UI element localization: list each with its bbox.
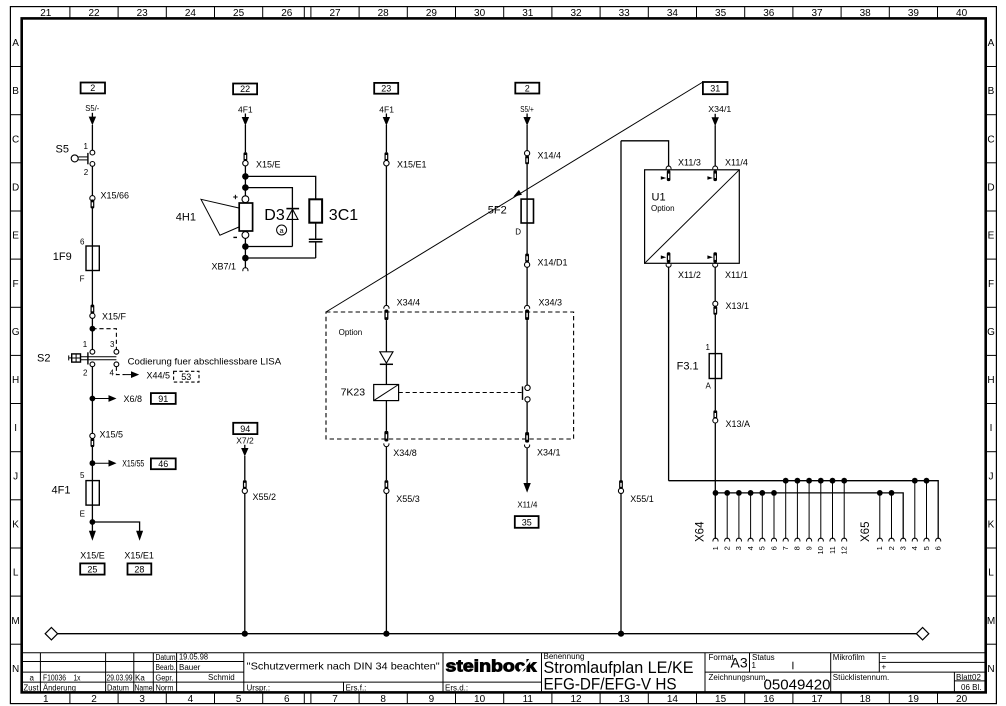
svg-text:A3: A3 — [731, 655, 748, 671]
svg-text:EFG-DF/EFG-V HS: EFG-DF/EFG-V HS — [544, 675, 677, 694]
svg-text:X14/4: X14/4 — [538, 151, 562, 161]
source arrow X34/1 — [714, 114, 716, 119]
sheet reference box 28 — [128, 563, 152, 574]
connector X64 pin 1 — [713, 490, 719, 496]
horn 4H1 — [233, 196, 237, 198]
svg-text:E: E — [988, 231, 995, 242]
svg-text:A: A — [706, 382, 712, 391]
svg-text:Änderung: Änderung — [43, 684, 76, 693]
bottom rail left diamond terminal — [45, 628, 57, 640]
svg-text:K: K — [12, 520, 19, 531]
svg-text:D: D — [515, 228, 521, 237]
wire X13/A down to lower bus and X64 pin 1 — [714, 423, 716, 539]
node to 3C1 branch junction dot — [242, 173, 249, 180]
svg-text:15: 15 — [715, 694, 727, 705]
frame left strip letters A-N — [11, 38, 19, 675]
connector X15/5 — [90, 433, 95, 438]
svg-text:37: 37 — [811, 8, 823, 19]
svg-text:X44/5: X44/5 — [147, 371, 171, 381]
svg-text:Bauer: Bauer — [179, 663, 201, 672]
svg-text:G: G — [12, 327, 20, 338]
branch arrow X15/E1 — [136, 531, 143, 541]
svg-text:a: a — [30, 674, 35, 683]
sheet reference box 25 — [80, 563, 104, 574]
wire arrow to S5 contact 1 — [91, 125, 93, 150]
wire X34/1 down with arrow to X11/4 — [526, 448, 528, 485]
wire arrow to U1 pin X11/4 — [714, 125, 716, 166]
svg-text:Norm: Norm — [156, 684, 174, 693]
svg-text:X11/3: X11/3 — [678, 157, 701, 167]
connector X34/8 — [384, 431, 388, 442]
connector X64 pin 7 — [783, 478, 789, 484]
svg-text:6: 6 — [934, 546, 943, 550]
svg-text:1: 1 — [84, 142, 89, 151]
svg-text:Option: Option — [651, 204, 675, 213]
svg-text:4F1: 4F1 — [379, 104, 394, 114]
svg-text:11: 11 — [828, 546, 837, 554]
svg-text:12: 12 — [840, 546, 849, 554]
frame top strip numbers 21-40 — [40, 8, 967, 19]
wire X14/4 to fuse 5F2 — [526, 164, 528, 199]
svg-text:X34/3: X34/3 — [539, 298, 563, 308]
svg-text:F: F — [13, 279, 19, 290]
svg-text:Ka: Ka — [135, 674, 145, 683]
svg-text:I: I — [990, 423, 993, 434]
svg-text:J: J — [989, 471, 994, 482]
svg-text:10: 10 — [474, 694, 486, 705]
option dashed enclosure — [326, 312, 574, 439]
svg-text:X34/1: X34/1 — [537, 447, 561, 457]
source arrow X7/2 — [244, 445, 246, 450]
svg-text:X11/1: X11/1 — [725, 270, 748, 280]
svg-text:X11/4: X11/4 — [517, 500, 537, 510]
svg-text:Ers.d.:: Ers.d.: — [445, 684, 468, 693]
svg-text:2: 2 — [91, 694, 97, 705]
connector X64 pin 10 — [818, 478, 824, 484]
svg-text:X15/F: X15/F — [102, 311, 127, 321]
diode in option box — [380, 352, 393, 363]
svg-text:F3.1: F3.1 — [677, 360, 699, 372]
wire node to 3C1 top — [245, 176, 315, 199]
frame right strip row dividers — [986, 67, 997, 645]
svg-text:25: 25 — [87, 565, 97, 575]
junction dot rail/X55-1 column — [618, 631, 624, 637]
svg-text:06 Bl.: 06 Bl. — [961, 683, 981, 692]
connector X65 pin 3 — [901, 538, 906, 541]
wire node to D3 top — [245, 188, 292, 209]
svg-text:22: 22 — [240, 84, 250, 94]
svg-text:14: 14 — [667, 694, 679, 705]
source arrow 4F1 (col 28) — [385, 114, 387, 119]
svg-text:X34/1: X34/1 — [708, 104, 731, 114]
svg-text:22: 22 — [88, 8, 100, 19]
svg-text:Mikrofilm: Mikrofilm — [833, 653, 865, 662]
svg-text:4F1: 4F1 — [52, 485, 71, 497]
dashed link S2 contact 4 to X44/5 — [116, 367, 124, 375]
svg-text:6: 6 — [284, 694, 290, 705]
wire arrow to X15/E — [244, 125, 246, 152]
title block grid lines — [22, 653, 986, 693]
wire F3.1 to X13/A — [714, 379, 716, 411]
svg-text:X13/A: X13/A — [726, 419, 751, 429]
svg-text:X55/2: X55/2 — [253, 492, 277, 502]
svg-text:9: 9 — [804, 546, 813, 550]
svg-text:1F9: 1F9 — [53, 251, 72, 263]
svg-text:3C1: 3C1 — [329, 207, 358, 224]
svg-text:24: 24 — [185, 8, 197, 19]
wire X55/2 to rail — [244, 494, 246, 634]
svg-text:Option: Option — [339, 328, 363, 337]
node X15/F junction dot — [90, 326, 96, 332]
svg-text:Urspr.:: Urspr.: — [247, 684, 271, 693]
frame bottom strip column dividers — [70, 692, 938, 703]
svg-text:3: 3 — [110, 340, 115, 349]
svg-text:28: 28 — [378, 8, 390, 19]
source arrow S5/- — [91, 113, 93, 118]
wire arrow to X14/4 — [526, 125, 528, 151]
node X15/55 junction dot — [90, 460, 96, 466]
svg-text:8: 8 — [793, 546, 802, 550]
svg-text:05049420: 05049420 — [764, 677, 831, 694]
wire X55/3 to rail — [385, 494, 387, 634]
svg-text:Codierung fuer abschliessbare: Codierung fuer abschliessbare LISA — [128, 357, 282, 368]
svg-text:X11/2: X11/2 — [678, 270, 701, 280]
svg-text:X15/E1: X15/E1 — [397, 160, 427, 170]
connector X65 pin 2 — [889, 490, 895, 496]
svg-text:3: 3 — [734, 546, 743, 550]
wire X15/E to horn 4H1 — [244, 166, 246, 200]
svg-text:J: J — [13, 471, 18, 482]
svg-text:B: B — [12, 86, 19, 97]
capacitor 3C1 branch — [309, 199, 322, 222]
svg-text:4: 4 — [110, 368, 115, 377]
svg-text:7K23: 7K23 — [341, 387, 366, 399]
svg-text:S5/+: S5/+ — [520, 104, 534, 114]
branch arrow to X15/55 — [92, 462, 109, 464]
svg-text:19.05.98: 19.05.98 — [179, 652, 209, 661]
connector X14/4 — [525, 151, 530, 156]
svg-text:X15/E: X15/E — [80, 550, 105, 560]
svg-text:I: I — [14, 423, 17, 434]
svg-text:"Schutzvermerk nach DIN 34 bea: "Schutzvermerk nach DIN 34 beachten" — [247, 662, 440, 673]
svg-text:3: 3 — [139, 694, 145, 705]
sheet reference box 35 — [515, 516, 539, 528]
wire X15/E1 down to X34/4 — [385, 166, 387, 305]
connector X65 pin 1 — [877, 490, 883, 496]
branch arrow X15/E — [91, 522, 93, 532]
svg-text:21: 21 — [40, 8, 52, 19]
svg-text:29.03.99: 29.03.99 — [107, 674, 133, 683]
svg-text:D3: D3 — [264, 207, 285, 224]
connector X34/4 — [384, 305, 389, 308]
svg-text:1: 1 — [752, 661, 757, 670]
diode D3 branch — [291, 208, 293, 247]
U1 pin X11/1 — [713, 252, 717, 263]
wire S5 to X15/66 — [91, 166, 93, 195]
lower distribution bus wire — [715, 493, 903, 539]
svg-text:23: 23 — [381, 84, 391, 94]
svg-text:2: 2 — [723, 546, 732, 550]
svg-text:X13/1: X13/1 — [726, 301, 750, 311]
wire X55/1 column down to rail — [620, 141, 622, 634]
svg-text:27: 27 — [329, 8, 341, 19]
connector X64 pin 11 — [830, 478, 836, 484]
connector X34/3 — [525, 305, 530, 308]
svg-text:94: 94 — [240, 424, 250, 434]
node D3 return junction dot — [242, 243, 249, 250]
sheet reference box 31 — [703, 82, 728, 94]
svg-text:13: 13 — [619, 694, 631, 705]
connector X64 pin 3 — [736, 490, 742, 496]
svg-text:N: N — [12, 664, 19, 675]
svg-text:20: 20 — [956, 694, 968, 705]
relay coil 7K23 — [374, 385, 399, 401]
svg-text:26: 26 — [281, 8, 293, 19]
svg-text:28: 28 — [134, 565, 144, 575]
node 3C1 return junction dot — [242, 255, 249, 262]
connector X65 pin 4 — [912, 478, 918, 484]
frame top strip fold mark — [303, 7, 305, 19]
wire X34/3 to relay contact — [526, 320, 528, 385]
frame bottom strip numbers 1-20 — [43, 694, 968, 705]
node below 4F1 junction dot — [90, 519, 96, 525]
wire diode to relay 7K23 — [385, 364, 387, 384]
svg-text:X15/5: X15/5 — [100, 430, 124, 440]
frame right strip letters A-N — [987, 38, 995, 675]
connector X64 pin 8 — [795, 478, 801, 484]
svg-text:6: 6 — [769, 546, 778, 550]
connector X15/E (horn feed) — [244, 152, 248, 161]
svg-text:30: 30 — [474, 8, 486, 19]
wire relay to X34/8 — [385, 401, 387, 431]
wire 4F1 to branch node — [91, 505, 93, 522]
svg-text:25: 25 — [233, 8, 245, 19]
svg-text:F: F — [988, 279, 994, 290]
node X6/8 junction dot — [90, 396, 96, 402]
svg-text:X15/55: X15/55 — [122, 459, 144, 469]
svg-text:X15/E: X15/E — [256, 159, 281, 169]
wire 5F2 to X14/D1 — [526, 223, 528, 254]
svg-text:23: 23 — [137, 8, 149, 19]
bottom supply rail wire — [58, 633, 917, 635]
wire arrow to X15/E1 — [385, 125, 387, 152]
svg-text:X6/8: X6/8 — [124, 394, 143, 404]
svg-text:S2: S2 — [37, 353, 50, 365]
svg-text:7: 7 — [332, 694, 338, 705]
svg-text:E: E — [80, 510, 85, 519]
svg-text:35: 35 — [522, 518, 532, 528]
svg-text:3: 3 — [899, 546, 908, 550]
connector X64 pin 2 — [724, 490, 730, 496]
svg-text:2: 2 — [84, 168, 89, 177]
svg-text:Bearb.: Bearb. — [156, 663, 176, 672]
wire X15/66 to fuse 1F9 to X15/F — [91, 209, 93, 305]
svg-text:17: 17 — [811, 694, 823, 705]
svg-text:11: 11 — [523, 694, 534, 705]
wire X34/8 to X55/3 — [385, 446, 387, 480]
svg-text:=: = — [882, 653, 887, 662]
svg-text:46: 46 — [158, 459, 168, 469]
U1 pin X11/3 — [666, 166, 671, 169]
svg-text:Gepr.: Gepr. — [156, 673, 174, 682]
wire corner feed to U1 pin X11/3 — [621, 141, 669, 167]
svg-text:M: M — [987, 616, 995, 627]
svg-text:18: 18 — [860, 694, 872, 705]
relay contact 7K23 in option box — [525, 385, 530, 390]
wire D3 bottom to node — [245, 246, 292, 248]
connector X14/D1 — [525, 254, 529, 263]
svg-text:38: 38 — [860, 8, 872, 19]
svg-text:1: 1 — [706, 343, 711, 352]
svg-text:10: 10 — [816, 546, 825, 554]
svg-text:X65: X65 — [860, 522, 872, 542]
svg-text:M: M — [11, 616, 19, 627]
sheet reference box 22 (col 25) — [233, 84, 257, 95]
svg-text:1: 1 — [711, 546, 720, 550]
connector X34/1 — [525, 432, 529, 443]
svg-text:X34/4: X34/4 — [397, 298, 421, 308]
svg-text:5F2: 5F2 — [488, 205, 507, 217]
sheet reference box 23 (col 28) — [374, 83, 398, 94]
svg-text:2: 2 — [887, 546, 896, 550]
svg-text:C: C — [987, 134, 994, 145]
wire contact to X34/1 — [526, 402, 528, 432]
svg-text:X15/66: X15/66 — [101, 191, 130, 201]
wire arrow to X55/2 — [244, 456, 246, 480]
svg-text:16: 16 — [763, 694, 775, 705]
svg-text:7: 7 — [781, 546, 790, 550]
connector X65 pin 6 — [936, 538, 941, 541]
svg-text:9: 9 — [429, 694, 435, 705]
frame bottom strip fold mark — [303, 692, 305, 703]
dashed actuating link 7K23 to contact — [399, 392, 522, 394]
junction dot rail/X55-3 column — [383, 631, 389, 637]
svg-text:32: 32 — [570, 8, 582, 19]
svg-text:H: H — [12, 375, 19, 386]
svg-text:1x: 1x — [74, 674, 81, 683]
wire X15/F to S2 contact 1 — [91, 318, 93, 349]
svg-text:E: E — [12, 231, 19, 242]
svg-text:S5/-: S5/- — [85, 103, 99, 113]
dashed link node to S2 contact 3 — [92, 329, 116, 350]
connector X64 pin 9 — [806, 478, 812, 484]
U1 pin X11/2 — [667, 252, 671, 263]
svg-text:L: L — [988, 568, 994, 579]
svg-text:G: G — [987, 327, 995, 338]
svg-text:A: A — [12, 38, 19, 49]
connector X13/A — [713, 410, 717, 419]
title block small labels and revision texts — [24, 652, 982, 692]
svg-text:S5: S5 — [56, 144, 69, 156]
wire 3C1 bottom to node — [245, 257, 315, 259]
svg-text:Ers.f.:: Ers.f.: — [346, 684, 367, 693]
svg-text:53: 53 — [181, 372, 191, 382]
connector X13/1 — [713, 301, 718, 306]
frame left strip row dividers — [10, 67, 21, 645]
svg-text:Name: Name — [135, 684, 153, 693]
long diagonal reference line to box 31 — [326, 82, 703, 312]
svg-text:F10036: F10036 — [43, 674, 66, 683]
svg-text:D: D — [987, 183, 994, 194]
sheet reference box 94 — [233, 423, 257, 434]
svg-text:X64: X64 — [694, 521, 706, 542]
svg-text:+: + — [882, 663, 887, 672]
svg-text:K: K — [988, 520, 995, 531]
connector X64 pin 5 — [759, 490, 765, 496]
svg-text:36: 36 — [763, 8, 775, 19]
svg-text:4: 4 — [188, 694, 194, 705]
wire X14/D1 to X34/3 — [526, 267, 528, 305]
svg-text:4: 4 — [746, 546, 755, 550]
svg-text:5: 5 — [758, 546, 767, 550]
svg-text:Stücklistennum.: Stücklistennum. — [833, 673, 889, 682]
svg-text:19: 19 — [908, 694, 920, 705]
svg-text:Zust: Zust — [24, 684, 40, 693]
connector X55/3 — [385, 480, 389, 489]
svg-text:X55/1: X55/1 — [630, 494, 654, 504]
wire X11/2 down to upper bus — [668, 267, 670, 481]
branch arrow to X6/8 — [92, 398, 109, 400]
svg-text:Datum: Datum — [107, 684, 129, 693]
connector X55/1 — [619, 480, 623, 489]
svg-text:33: 33 — [619, 8, 631, 19]
svg-text:Blatt02: Blatt02 — [956, 673, 981, 682]
svg-text:B: B — [988, 86, 995, 97]
svg-text:1: 1 — [875, 546, 884, 550]
svg-text:6: 6 — [80, 237, 85, 246]
source arrow 4F1 — [244, 114, 246, 119]
connector X64 pin 4 — [748, 490, 754, 496]
branch wire to X15/E1 arrow — [92, 522, 139, 532]
svg-text:X7/2: X7/2 — [236, 435, 254, 445]
frame top strip column dividers — [70, 7, 938, 19]
node to D3 branch junction dot — [242, 184, 249, 191]
svg-text:40: 40 — [956, 8, 968, 19]
module U1 — [645, 170, 740, 263]
svg-text:39: 39 — [908, 8, 920, 19]
svg-text:Schmid: Schmid — [208, 673, 235, 682]
connector X64 pin 6 — [771, 490, 777, 496]
variant mark circle a — [277, 225, 287, 235]
svg-text:X15/E1: X15/E1 — [124, 550, 154, 560]
svg-text:U1: U1 — [652, 191, 666, 203]
svg-text:4: 4 — [910, 546, 919, 550]
svg-text:2: 2 — [90, 83, 95, 93]
svg-text:5: 5 — [236, 694, 242, 705]
svg-text:34: 34 — [667, 8, 679, 19]
svg-text:5: 5 — [80, 471, 85, 480]
svg-text:91: 91 — [158, 394, 168, 404]
svg-text:Datum: Datum — [156, 653, 176, 662]
svg-text:4F1: 4F1 — [238, 104, 253, 114]
svg-text:2: 2 — [525, 83, 530, 93]
svg-text:A: A — [988, 38, 995, 49]
svg-text:Zeichnungsnum.: Zeichnungsnum. — [709, 673, 768, 682]
svg-text:8: 8 — [380, 694, 386, 705]
sheet reference box 91 — [151, 393, 176, 404]
svg-text:H: H — [987, 375, 994, 386]
connector X15/F — [91, 305, 95, 314]
connector X65 pin 5 — [924, 478, 930, 484]
svg-text:D: D — [12, 183, 19, 194]
wire horn to XB7/1 — [244, 238, 246, 268]
upper distribution bus wire — [669, 481, 939, 539]
svg-text:X11/4: X11/4 — [725, 157, 748, 167]
U1 pin X11/4 — [713, 166, 718, 169]
svg-text:X14/D1: X14/D1 — [538, 258, 568, 268]
junction dot rail/X55-2 column — [242, 631, 248, 637]
bottom rail right diamond terminal — [916, 628, 928, 640]
